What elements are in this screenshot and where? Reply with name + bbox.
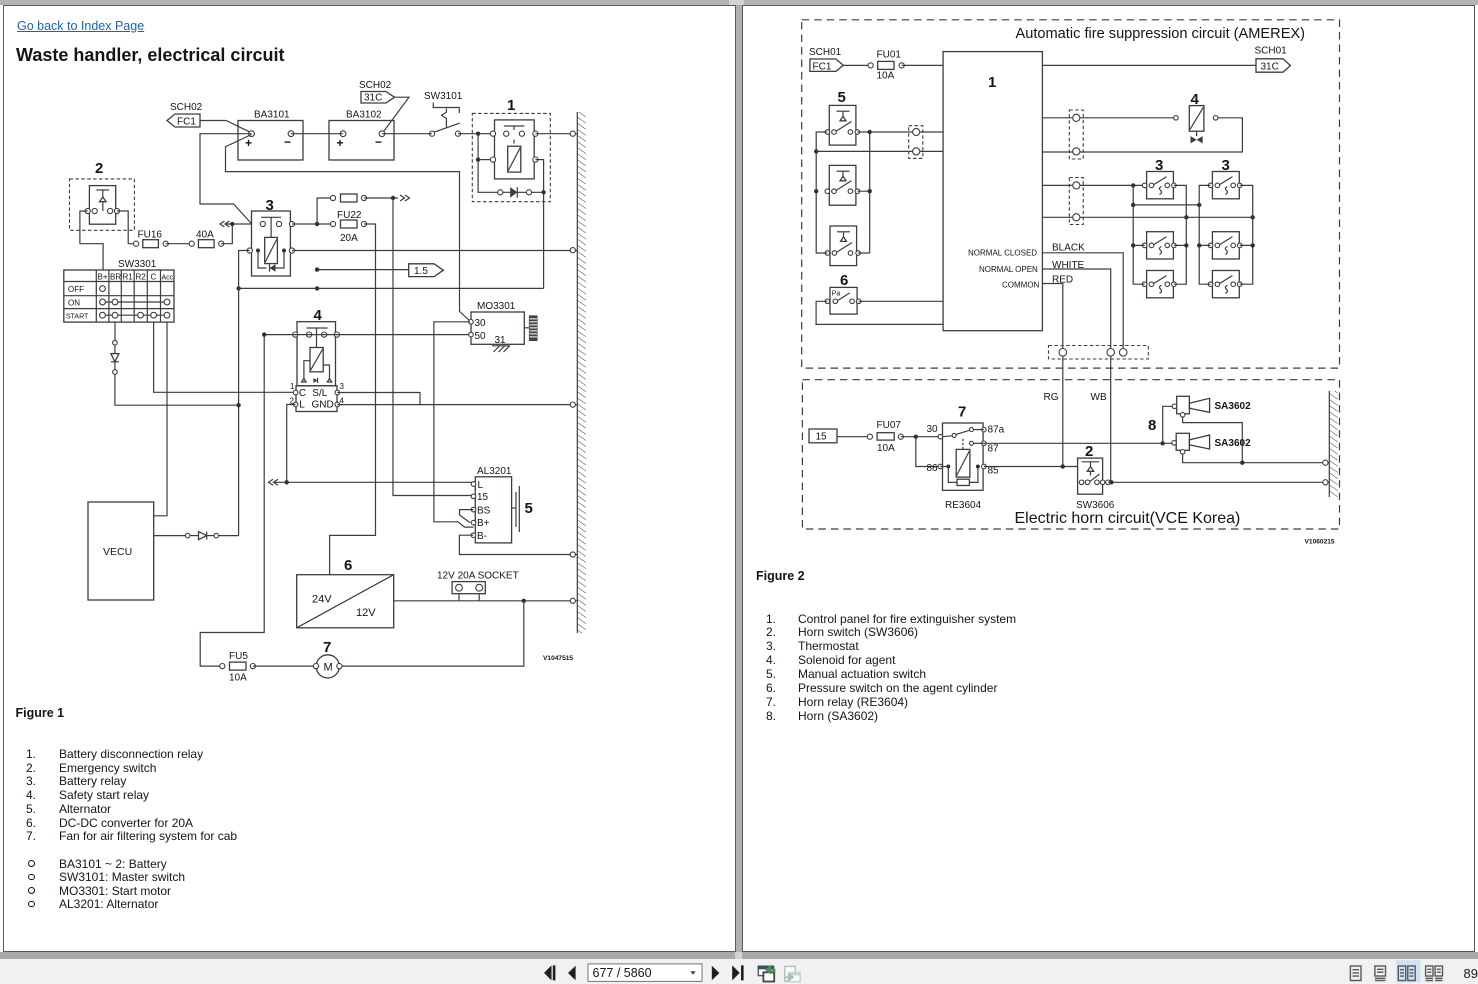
svg-text:2: 2 — [95, 160, 103, 177]
switch table SW3301 — [64, 259, 174, 322]
svg-text:3: 3 — [340, 382, 345, 391]
svg-text:ON: ON — [68, 298, 80, 307]
svg-text:7: 7 — [958, 404, 966, 421]
dashed connector below panel — [1049, 346, 1149, 360]
svg-text:5: 5 — [838, 89, 846, 106]
svg-text:V1047515: V1047515 — [543, 655, 573, 662]
svg-text:50: 50 — [475, 331, 487, 342]
svg-text:NORMAL CLOSED: NORMAL CLOSED — [968, 249, 1037, 258]
RIGHT PAGE TEXT — [1016, 26, 1306, 42]
group L right bus — [1174, 185, 1189, 284]
node 15 box — [809, 429, 837, 443]
svg-text:GND: GND — [312, 400, 334, 411]
wire relay 1 bottom to bus y288 — [543, 192, 545, 288]
wire battery positive down to feed rail y172 — [226, 135, 470, 321]
flag SCH01 / FC1 — [809, 47, 843, 72]
drawing number — [543, 655, 573, 662]
svg-text:6: 6 — [840, 272, 848, 289]
wire relay 4 pin 2 down to off-page arrows — [287, 405, 296, 483]
dashed connector at panel input — [909, 126, 923, 159]
svg-text:BS: BS — [477, 505, 491, 516]
dashed connector solenoid rows — [1069, 110, 1083, 159]
svg-text:BA3101: BA3101 — [254, 110, 290, 121]
svg-text:SCH01: SCH01 — [1255, 46, 1288, 57]
svg-text:Acc: Acc — [162, 274, 174, 281]
svg-text:SA3602: SA3602 — [1215, 438, 1252, 449]
svg-text:COMMON: COMMON — [1002, 281, 1040, 290]
svg-text:Pa: Pa — [832, 290, 841, 297]
off-page arrows into relay 3 node — [220, 221, 252, 227]
wire relay 4 pin 3 jog to ground rail — [337, 393, 420, 405]
svg-text:87: 87 — [988, 444, 1000, 455]
svg-text:1.5: 1.5 — [414, 266, 428, 277]
svg-text:C: C — [299, 388, 306, 399]
solenoid 4 row — [1042, 116, 1178, 121]
fire suppression dashed enclosure — [802, 20, 1340, 368]
wire relay 4 row to MO3301 pin 50 — [262, 332, 471, 336]
horn switch SW3606 — [1076, 443, 1115, 511]
pressure switch 6 — [825, 272, 861, 314]
svg-text:B-: B- — [477, 531, 487, 542]
start motor MO3301 — [469, 301, 537, 346]
svg-text:FC1: FC1 — [177, 117, 196, 128]
svg-text:31C: 31C — [364, 93, 382, 104]
upper fuse row to arrows — [317, 194, 409, 224]
svg-text:−: − — [375, 135, 382, 149]
battery BA3102 — [329, 110, 394, 160]
svg-text:V1060215: V1060215 — [1305, 539, 1335, 546]
wire 87 node to horn feeds — [1161, 406, 1173, 445]
svg-text:M: M — [324, 662, 333, 674]
fuse 40A — [189, 230, 224, 248]
svg-text:5: 5 — [525, 500, 533, 517]
svg-text:FU5: FU5 — [229, 651, 248, 662]
jumper BS to B+ — [460, 510, 474, 523]
svg-text:+: + — [337, 136, 344, 150]
wire 40A up to relay 3 input node — [221, 224, 232, 244]
svg-text:85: 85 — [988, 466, 1000, 477]
solenoid return loop — [1042, 118, 1242, 152]
thermostat R2 — [1208, 232, 1242, 259]
svg-text:SW3101: SW3101 — [424, 91, 463, 102]
relay 4 connector block C S/L L GND — [290, 382, 345, 412]
wire relay4 node staircase to FU5 — [200, 335, 264, 666]
horn label 8 — [1148, 417, 1156, 434]
relay 1 (battery disconnection relay) — [472, 97, 550, 202]
flag SCH01 / 31C — [1255, 46, 1291, 73]
svg-text:677 / 5860: 677 / 5860 — [593, 966, 652, 980]
svg-text:NORMAL OPEN: NORMAL OPEN — [979, 265, 1038, 274]
svg-text:FU07: FU07 — [877, 420, 902, 431]
svg-text:FU01: FU01 — [877, 50, 902, 61]
svg-text:−: − — [284, 135, 291, 149]
wire FU16 to 40A fuse — [166, 243, 192, 245]
wire WB — [1091, 356, 1111, 482]
right bus of switch group — [857, 130, 872, 253]
dashed connector group rows — [1069, 178, 1083, 225]
safety start relay 4 — [293, 307, 340, 386]
relay 3 to hatch y250 — [292, 248, 577, 253]
svg-text:VECU: VECU — [103, 546, 132, 558]
svg-text:START: START — [66, 313, 89, 320]
svg-text:8: 8 — [1148, 417, 1156, 434]
svg-text:FU16: FU16 — [138, 230, 163, 241]
thermostat group labels 3 — [1155, 157, 1230, 174]
diode branch below table BR — [111, 322, 239, 405]
svg-text:31: 31 — [495, 335, 507, 346]
wire WHITE — [1043, 260, 1111, 349]
wire 85 to horn switch — [984, 464, 1078, 468]
thermostat switch A — [825, 105, 860, 145]
wire converter to socket rail and hatch — [394, 598, 577, 603]
svg-text:B+: B+ — [98, 273, 108, 282]
horn SA3602 upper — [1172, 396, 1251, 417]
svg-text:L: L — [478, 480, 484, 491]
svg-text:31C: 31C — [1261, 62, 1279, 73]
wire alternator B- to hatch — [459, 535, 577, 557]
thermostat R3 — [1208, 271, 1242, 298]
svg-text:BLACK: BLACK — [1052, 243, 1085, 254]
svg-text:7: 7 — [323, 639, 331, 656]
svg-text:C: C — [151, 273, 157, 282]
manual actuation switches label 5 — [838, 89, 846, 106]
DC-DC converter 6 — [297, 557, 394, 628]
wire row A to connector and panel — [870, 131, 943, 133]
wire fuse row down to alternator pin 15 — [393, 198, 474, 496]
group L left bus — [1131, 185, 1145, 284]
diode VECU output — [154, 532, 239, 540]
svg-text:SCH01: SCH01 — [809, 47, 842, 58]
svg-text:SA3602: SA3602 — [1215, 401, 1252, 412]
wire FU01 to control panel — [902, 64, 943, 66]
vertical bus x238 relay3 coil to VECU diode — [236, 251, 249, 536]
svg-text:20A: 20A — [340, 233, 358, 244]
ground symbol under MO3301 — [492, 346, 510, 353]
svg-text:OFF: OFF — [68, 285, 84, 294]
off-page arrows to alternator L wire — [269, 479, 474, 485]
wire horn returns to hatch — [1183, 417, 1329, 465]
solenoid for agent 4 — [1189, 91, 1218, 143]
svg-text:B+: B+ — [477, 518, 490, 529]
alternator AL3201 — [471, 466, 533, 543]
wire BA3101 to BA3102 — [291, 133, 343, 135]
svg-text:RG: RG — [1044, 392, 1059, 403]
wire RG — [1044, 356, 1063, 466]
master switch SW3101 — [424, 91, 463, 136]
svg-text:15: 15 — [477, 492, 489, 503]
svg-text:MO3301: MO3301 — [477, 301, 516, 312]
svg-text:FC1: FC1 — [813, 61, 832, 72]
svg-text:10A: 10A — [229, 673, 247, 684]
fuse FU16 — [134, 230, 169, 248]
horn circuit dashed enclosure — [802, 380, 1339, 529]
bus y288 from relay1 drop to left bus — [236, 286, 543, 290]
wire horn switch to hatch — [1108, 480, 1329, 485]
svg-text:4: 4 — [340, 396, 345, 405]
left bus of switch group — [814, 132, 827, 253]
drawing number V1060215 — [1305, 539, 1335, 546]
svg-text:SCH02: SCH02 — [170, 102, 203, 113]
wire socket rail down to fan motor — [341, 601, 524, 666]
battery BA3101 — [238, 110, 303, 160]
svg-text:12V 20A SOCKET: 12V 20A SOCKET — [437, 570, 519, 581]
thermostat switch B — [825, 165, 860, 205]
fuse FU07 10A — [867, 420, 903, 454]
ground hatch bar (left page right side) — [577, 112, 586, 633]
svg-text:SW3606: SW3606 — [1076, 500, 1115, 511]
LEFT PAGE TEXT — [17, 19, 144, 33]
svg-text:86: 86 — [927, 463, 939, 474]
flag 1.5 — [315, 264, 444, 277]
wire 15 to FU07 — [837, 436, 870, 438]
svg-text:1: 1 — [507, 97, 515, 114]
thermostat L1 — [1142, 172, 1176, 199]
thermostat L3 — [1142, 271, 1176, 298]
svg-text:30: 30 — [927, 424, 939, 435]
svg-text:S/L: S/L — [312, 388, 327, 399]
svg-text:10A: 10A — [877, 71, 895, 82]
flag SCH02 / 31C — [359, 80, 395, 104]
battery relay 3 — [247, 197, 294, 276]
wire 87 to horns — [984, 442, 1163, 444]
svg-text:30: 30 — [475, 318, 487, 329]
wire pressure switch return loop — [816, 301, 943, 324]
svg-text:89: 89 — [1464, 966, 1478, 981]
wire MO3301 pin30 to alternator B+ rail — [434, 322, 474, 527]
wire relay 1 to ground hatch — [535, 131, 577, 136]
wire SW3101 to relay 1 — [458, 132, 493, 136]
wire BLACK — [1043, 243, 1124, 349]
jumper between groups — [1133, 203, 1201, 207]
wire relay 4 pin 4 GND to hatch — [337, 402, 577, 407]
wire left bus row to connector and panel — [816, 150, 943, 152]
svg-text:L: L — [299, 400, 305, 411]
socket 12V 20A — [437, 570, 519, 601]
svg-text:SCH02: SCH02 — [359, 80, 392, 91]
wire switch 2 right to FU16 — [117, 211, 136, 244]
svg-text:1: 1 — [988, 74, 996, 91]
svg-text:BR: BR — [110, 273, 121, 282]
bus row between groups — [1042, 215, 1255, 219]
svg-text:R2: R2 — [136, 273, 147, 282]
fuse FU01 10A — [868, 50, 904, 82]
wire table C column to relay 4 pin 1 — [154, 322, 296, 392]
fan motor 7 — [253, 639, 342, 678]
wire BA3102 to SW3101 — [382, 133, 432, 135]
svg-text:10A: 10A — [877, 443, 895, 454]
svg-text:SW3301: SW3301 — [118, 259, 157, 270]
fuse FU5 — [220, 651, 256, 684]
thermostat switch C — [825, 226, 860, 266]
fuse FU22 20A — [330, 210, 366, 244]
group R right bus — [1240, 185, 1255, 284]
wire FU07 to relay 30 and 86 — [901, 435, 941, 467]
wire 31C to battery BA3102 negative — [383, 97, 410, 133]
wire FC1 to battery positive — [200, 121, 252, 133]
svg-text:AL3201: AL3201 — [477, 466, 512, 477]
horn SA3602 lower — [1172, 433, 1251, 454]
wire table Acc column to VECU — [154, 322, 167, 516]
svg-text:87a: 87a — [988, 425, 1005, 436]
thermostat L2 — [1142, 232, 1176, 259]
svg-text:WB: WB — [1091, 392, 1107, 403]
wire battery positive to relay 3 — [200, 134, 252, 224]
thermostat R1 — [1208, 172, 1242, 199]
svg-text:15: 15 — [816, 432, 828, 443]
control panel 1 — [943, 52, 1042, 331]
svg-text:1: 1 — [290, 382, 295, 391]
svg-text:R1: R1 — [123, 273, 134, 282]
wire switch 2 left to SW3301 B+ — [80, 211, 103, 270]
horn relay RE3604 — [927, 404, 1005, 512]
emergency switch 2 — [70, 160, 135, 230]
wire relay 3 to FU22 node — [292, 222, 333, 226]
svg-text:12V: 12V — [356, 607, 376, 619]
ground hatch right page — [1329, 391, 1337, 497]
svg-text:RE3604: RE3604 — [945, 500, 982, 511]
svg-text:40A: 40A — [196, 230, 214, 241]
flag SCH02 / FC1 — [167, 102, 203, 128]
svg-text:BA3102: BA3102 — [346, 110, 382, 121]
VECU control unit — [88, 502, 154, 600]
wire panel row to group L — [1042, 183, 1144, 187]
wire FC1 to FU01 — [843, 64, 870, 66]
svg-text:+: + — [245, 136, 252, 150]
svg-text:24V: 24V — [312, 594, 332, 606]
wire pressure switch to panel — [859, 300, 943, 302]
group R left bus — [1197, 185, 1211, 284]
wire control panel to 31C flag — [1042, 64, 1256, 66]
panel terminal labels — [968, 249, 1040, 290]
svg-text:6: 6 — [344, 557, 352, 574]
wire RED — [1043, 275, 1073, 349]
wire FU22 down-jog to converter 6 — [330, 224, 376, 575]
